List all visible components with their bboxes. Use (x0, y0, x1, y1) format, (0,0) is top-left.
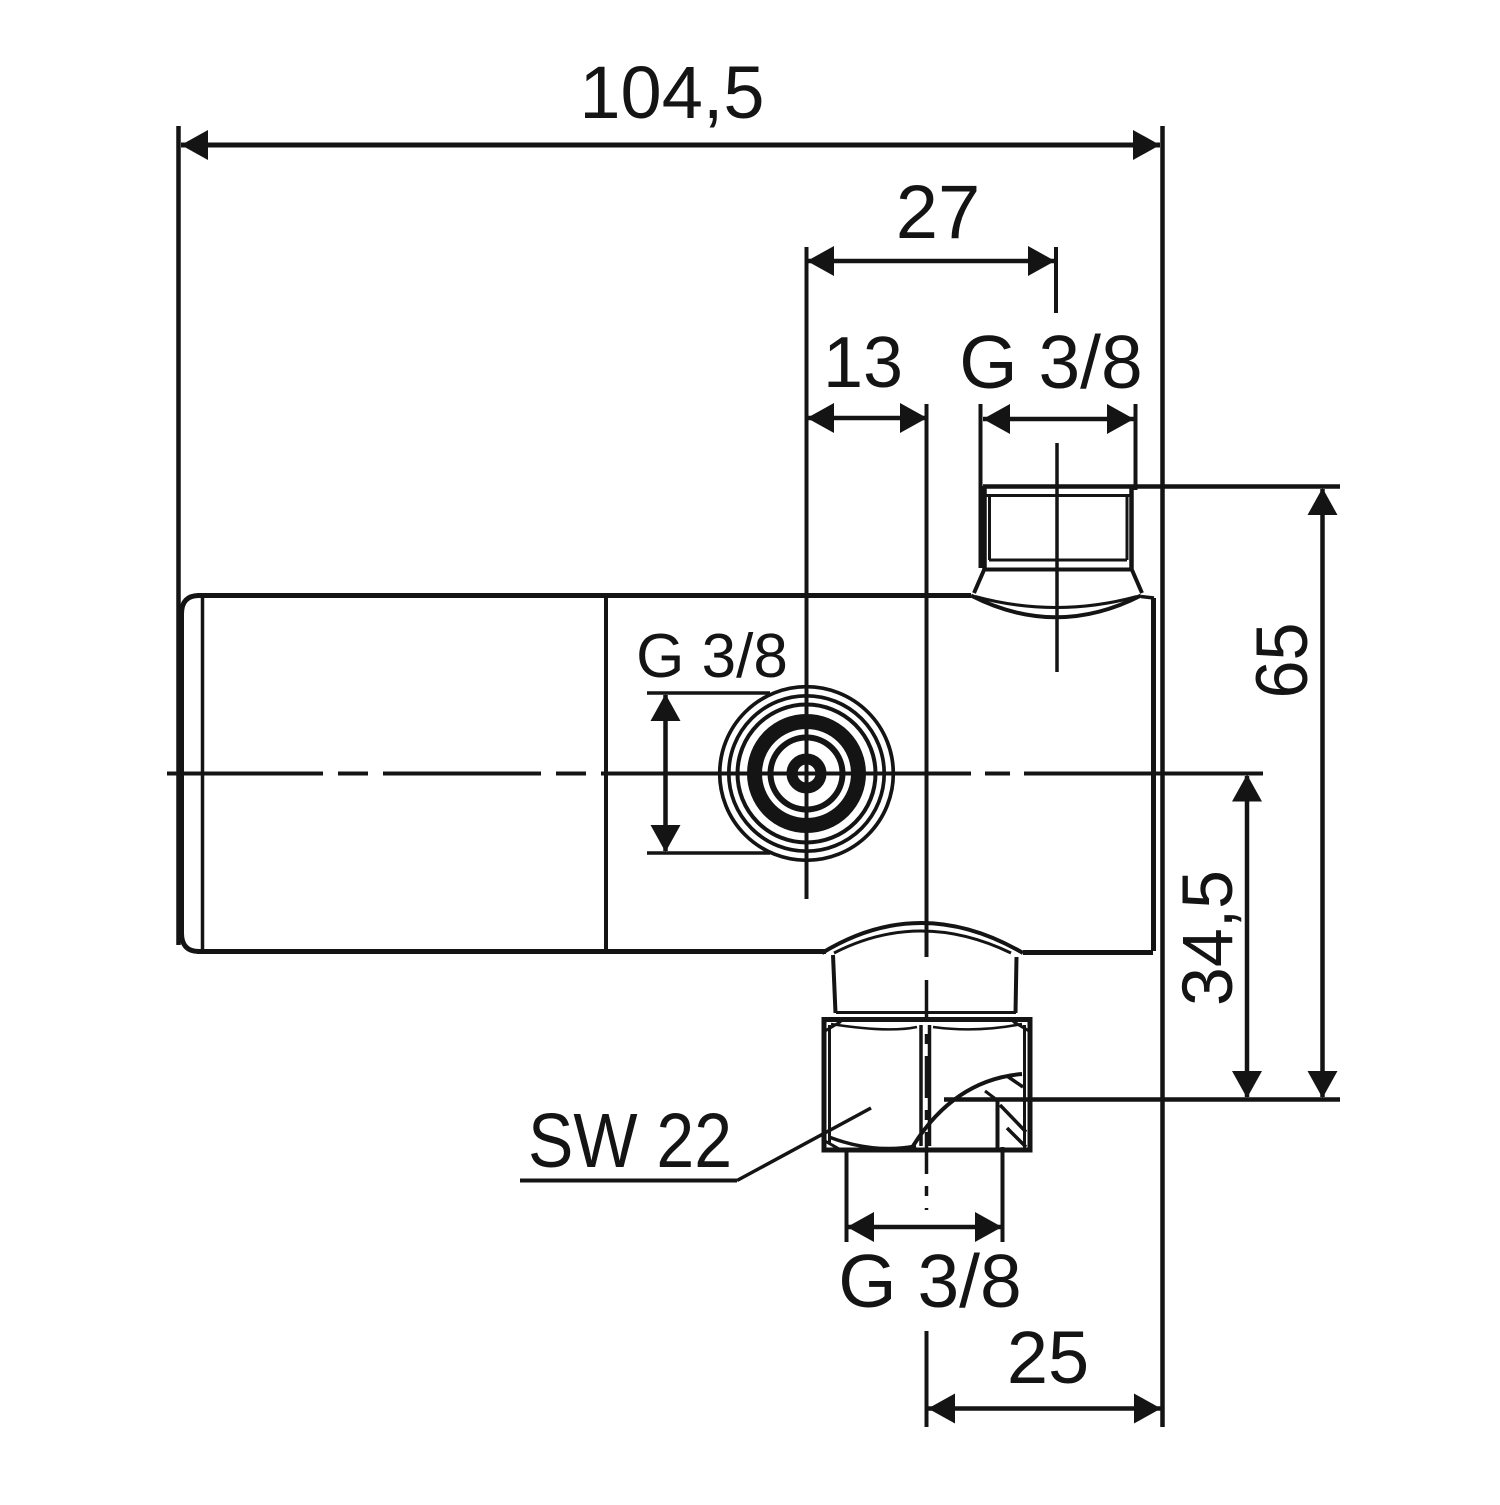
extension line / bottom-port axis (x=926.5 solid part) (925, 404, 929, 957)
extension line 27 right (x=1056) (1054, 247, 1058, 313)
top port outer right wall (1129, 486, 1134, 570)
dimension G3/8 bottom left arrow (847, 1212, 874, 1242)
bottom arch outer arc (822, 923, 1023, 953)
bottom port centerline dashed (925, 980, 929, 1210)
nut inner right line (1023, 1025, 1026, 1148)
svg-text:65: 65 (1242, 623, 1323, 699)
dimension 27 line (807, 259, 1055, 264)
hatch stroke 2 (1000, 1105, 1026, 1132)
dimension G3/8 top left arrow (983, 404, 1010, 434)
side port ring r36 (771, 738, 843, 810)
side port dim top tick (647, 691, 770, 695)
nut facet line right (928, 1025, 932, 1146)
body cap inner line (201, 597, 205, 950)
dimension 34,5 up arrow (1232, 775, 1262, 802)
side port dim line (663, 695, 668, 851)
body divider line (604, 597, 608, 950)
thread box left wall (996, 1101, 1000, 1148)
svg-text:G 3/8: G 3/8 (636, 622, 788, 691)
dimension G3/8 bottom line (847, 1225, 1002, 1230)
dimension 65 down arrow (1308, 1071, 1338, 1098)
main centerline dot 3 (985, 772, 1010, 776)
main centerline segment 4 (1024, 772, 1263, 776)
extension line G3/8 right (x=1135.5) (1134, 404, 1138, 490)
neck-nut interface line (836, 1011, 1016, 1014)
side port thick ring r52 (755, 722, 859, 826)
nut top-right chamfer (1013, 1022, 1029, 1032)
nut bottom chamfer arc (829, 1137, 916, 1149)
nut inner left line (828, 1025, 831, 1144)
reference line bottom (y=1099.5) + thread box top (944, 1097, 1340, 1102)
dimension 25 line (928, 1406, 1161, 1411)
svg-text:13: 13 (823, 323, 903, 403)
body right edge (1151, 598, 1156, 951)
extension line G3/8 bottom right (1001, 1147, 1005, 1242)
side port circle r78 (729, 696, 884, 851)
main centerline dot 1 (338, 772, 368, 776)
svg-text:G 3/8: G 3/8 (959, 320, 1142, 404)
svg-text:34,5: 34,5 (1169, 870, 1248, 1006)
main centerline dot 2 (556, 772, 586, 776)
svg-text:104,5: 104,5 (579, 51, 764, 134)
top port right flare (1132, 570, 1142, 593)
top port outer top line + 65 extension (983, 484, 1340, 489)
dimension 13 left arrow (807, 403, 834, 433)
top port outer bottom line (984, 568, 1132, 572)
bottom port centerline lower solid (925, 1331, 929, 1427)
body bottom edge right part (1023, 950, 1153, 955)
thread cut curve (910, 1074, 1022, 1151)
svg-text:SW 22: SW 22 (528, 1098, 732, 1184)
dimension 13 right arrow (900, 403, 927, 433)
extension line / side-port centerline (x=806.5) (805, 247, 809, 899)
dimension 65 up arrow (1308, 488, 1338, 515)
dimension 25 left arrow (928, 1394, 955, 1424)
nut bottom-left chamfer (825, 1141, 840, 1150)
main centerline segment 3 (601, 772, 971, 776)
bottom neck right side (1016, 957, 1017, 1013)
hatch stroke 3 (1007, 1128, 1026, 1147)
nut top-left chamfer (825, 1022, 841, 1032)
extension line G3/8 bottom left (845, 1152, 849, 1242)
bottom neck left side (833, 955, 836, 1013)
dimension 27 right arrow (1028, 246, 1055, 276)
dimension 34,5 down arrow (1232, 1071, 1262, 1098)
dimension 65 line (1320, 489, 1325, 1097)
top port shoulder inner arc (975, 597, 1137, 608)
main centerline segment 2 (383, 772, 541, 776)
top port shoulder outer arc (971, 596, 1141, 618)
bottom arch inner arc (834, 931, 1011, 953)
svg-text:G 3/8: G 3/8 (838, 1239, 1021, 1323)
top port inner right wall (1126, 495, 1129, 560)
side port dim up arrow (651, 694, 681, 721)
dimension 34,5 line (1245, 776, 1250, 1097)
nut top chamfer curve right (933, 1024, 1022, 1029)
dimension 104,5 right arrow (1133, 130, 1160, 160)
side port circle r69 (738, 705, 876, 843)
body bottom edge left part (197, 949, 826, 954)
hatch stroke 1 (1007, 1076, 1023, 1087)
dimension G3/8 top line (983, 417, 1134, 422)
nut top chamfer curve left (831, 1024, 917, 1029)
dimension 25 right arrow (1134, 1394, 1161, 1424)
nut facet line left (919, 1025, 923, 1146)
hatch stroke 4 (985, 1091, 997, 1100)
body top edge (197, 593, 971, 598)
SW 22 underline (520, 1179, 737, 1183)
hex nut outline (824, 1020, 1030, 1151)
extension line left (x=178) (176, 126, 181, 945)
body left edge with rounded corners (182, 596, 200, 952)
dimension G3/8 top right arrow (1107, 404, 1134, 434)
side port dim bottom tick (647, 851, 770, 855)
svg-text:25: 25 (1007, 1316, 1089, 1399)
side port small ring r14.5 (792, 759, 821, 788)
dimension G3/8 bottom right arrow (975, 1212, 1002, 1242)
extension line right (x=1162) (1160, 126, 1165, 1427)
dimension 104,5 line (181, 143, 1160, 148)
side port dim down arrow (651, 825, 681, 852)
SW 22 leader (737, 1108, 871, 1181)
top port left flare (974, 570, 984, 593)
dimension 27 left arrow (807, 246, 834, 276)
extension line G3/8 left (x=980.5) (979, 404, 983, 568)
dimension 13 line (807, 416, 927, 421)
top port centerline (1055, 443, 1059, 672)
top port outer left wall (982, 486, 987, 570)
body top-right ledge (1141, 597, 1154, 599)
side port crosshair horizontal (762, 772, 851, 776)
dimension 104,5 left arrow (181, 130, 208, 160)
svg-text:27: 27 (896, 170, 981, 255)
top port inner left wall (988, 495, 991, 560)
side port circle r87 (720, 687, 894, 861)
top port inner top line (986, 494, 1130, 497)
top port inner bottom line (989, 559, 1127, 562)
main centerline (dash-dot) segment 1 (167, 772, 323, 776)
